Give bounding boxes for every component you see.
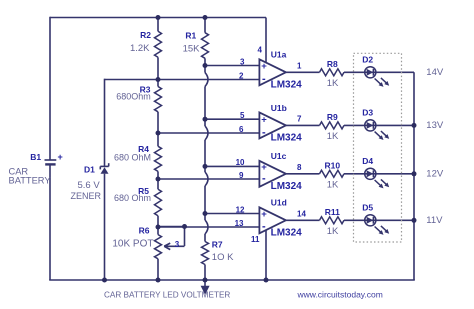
svg-text:6: 6 (239, 125, 244, 134)
wire U1a + input (pin 3) (205, 65, 259, 67)
svg-text:14V: 14V (426, 67, 444, 78)
svg-text:D3: D3 (362, 108, 373, 118)
svg-text:15K: 15K (183, 44, 201, 55)
node reference tap U1b (156, 131, 161, 136)
LED D5 (365, 215, 390, 235)
op-amp U1c (259, 161, 286, 187)
wire R11 to D5 (344, 219, 365, 221)
wire U1d pin 11 ground (265, 230, 267, 280)
wire R7 bottom lead (204, 265, 206, 281)
svg-text:D2: D2 (362, 55, 373, 65)
svg-text:5: 5 (240, 111, 245, 120)
svg-text:2: 2 (239, 71, 244, 80)
wire U1d output (286, 219, 320, 221)
svg-text:+: + (58, 152, 63, 162)
LED D3 (365, 120, 390, 140)
LED D4 (365, 168, 390, 188)
svg-text:1K: 1K (327, 131, 339, 142)
wire R1 top lead (204, 18, 206, 33)
wire R5 bottom lead (157, 216, 159, 227)
node sense tap U1b (203, 117, 208, 122)
svg-text:1K: 1K (327, 179, 339, 190)
svg-text:12V: 12V (426, 169, 444, 180)
svg-text:LM324: LM324 (271, 228, 303, 239)
node reference tap U1d (156, 225, 161, 230)
wire R9 to D3 (344, 124, 365, 126)
svg-text:1K: 1K (327, 226, 339, 237)
wire R4 bottom lead (157, 171, 159, 179)
node wiper junction (182, 224, 187, 229)
svg-text:LM324: LM324 (271, 181, 303, 192)
svg-text:LM324: LM324 (271, 80, 303, 91)
wire U1a pin 4 supply (265, 18, 267, 63)
svg-text:1K: 1K (327, 78, 339, 89)
wire right LED common rail (413, 72, 415, 280)
wire U1b output (286, 124, 320, 126)
svg-text:+: + (261, 209, 267, 220)
svg-text:8: 8 (297, 163, 302, 172)
ground (201, 280, 210, 295)
svg-text:11: 11 (251, 235, 260, 244)
svg-text:7: 7 (297, 115, 302, 124)
node sense tap U1d (203, 211, 208, 216)
resistor R9 (320, 122, 345, 129)
wire U1b - input (pin 6) (158, 132, 259, 134)
op-amp U1b (259, 112, 286, 138)
svg-text:LM324: LM324 (271, 133, 303, 144)
svg-text:1O K: 1O K (212, 252, 234, 263)
label CAR BATTERY (9, 167, 51, 186)
svg-text:U1d: U1d (271, 198, 287, 208)
wire left battery rail (lower) (49, 164, 51, 280)
wire D2 to rail (376, 71, 414, 73)
svg-text:10K POT: 10K POT (112, 239, 153, 250)
wire U1d + input (pin 12) (205, 213, 259, 215)
node reference tap U1a (156, 77, 161, 82)
svg-text:3: 3 (240, 57, 245, 66)
wire U1a - input (pin 2) (158, 79, 259, 81)
node reference tap U1c (156, 177, 161, 182)
wire sense node column with crossover hops (205, 66, 208, 242)
svg-text:R7: R7 (212, 240, 223, 250)
LED D2 (365, 67, 390, 87)
svg-text:12: 12 (236, 205, 245, 214)
svg-text:11V: 11V (426, 215, 443, 226)
svg-text:R1: R1 (185, 31, 196, 41)
resistor R11 (320, 217, 345, 224)
svg-text:680Ohm: 680Ohm (116, 91, 151, 101)
svg-text:ZENER: ZENER (71, 191, 102, 201)
wire zener column upper (104, 79, 106, 167)
svg-text:BATTERY: BATTERY (9, 176, 51, 186)
resistor R1 (202, 33, 209, 59)
wire R8 to D2 (344, 71, 365, 73)
svg-text:R2: R2 (140, 30, 151, 40)
svg-text:+: + (261, 115, 267, 126)
wire R5 top lead (157, 179, 159, 189)
svg-text:D5: D5 (362, 203, 373, 213)
wire U1c - input (pin 9) (158, 178, 259, 180)
svg-text:U1a: U1a (271, 50, 287, 60)
wire U1d - input (pin 13) (158, 226, 259, 228)
wire R4 top lead (157, 133, 159, 146)
wire R3 top lead (157, 80, 159, 87)
svg-text:3: 3 (175, 240, 180, 249)
node bottom / pin 11 (264, 278, 269, 283)
wire R10 to D4 (344, 173, 365, 175)
svg-text:R8: R8 (327, 59, 338, 69)
wire D3 to rail (376, 124, 414, 126)
wire zener top branch (105, 79, 159, 81)
resistor R3 (155, 87, 162, 112)
wire bottom ground rail (49, 279, 415, 281)
svg-text:R9: R9 (327, 112, 338, 122)
svg-text:R11: R11 (325, 207, 340, 217)
wire U1c output (286, 173, 320, 175)
node bottom / zener (102, 278, 107, 283)
wire left battery rail (upper) (49, 17, 51, 160)
node bottom / R7 (203, 278, 208, 283)
node sense tap U1a (203, 63, 208, 68)
wire D4 to rail (376, 173, 414, 175)
resistor R4 (155, 146, 162, 171)
wire U1c + input (pin 10) (205, 165, 259, 167)
svg-text:13: 13 (235, 219, 244, 228)
svg-text:1: 1 (297, 62, 302, 71)
svg-text:+: + (261, 162, 267, 173)
zener diode D1 (100, 163, 108, 174)
wire top supply rail (50, 17, 266, 19)
node sense tap U1c (203, 164, 208, 169)
node top rail / R2 (156, 15, 161, 20)
wire R3 bottom lead (157, 112, 159, 133)
label 5.6 V ZENER (71, 180, 102, 201)
wire R6 top lead (157, 227, 159, 235)
svg-text:5.6 V: 5.6 V (78, 180, 101, 191)
svg-text:-: - (262, 127, 266, 139)
resistor R10 (320, 170, 345, 177)
resistor R8 (320, 69, 345, 76)
svg-text:-: - (262, 173, 266, 185)
svg-text:U1b: U1b (271, 103, 287, 113)
svg-text:680 Ohm: 680 Ohm (114, 193, 151, 203)
wire zener column lower (104, 174, 106, 280)
wire R6 bottom lead (157, 259, 159, 280)
op-amp U1a (259, 59, 286, 85)
resistor R7 (202, 242, 209, 265)
svg-text:R10: R10 (325, 160, 341, 170)
node rail 13V (412, 123, 417, 128)
op-amp U1d (259, 207, 286, 233)
wire R1 bottom lead (204, 58, 206, 65)
wire U1a output (286, 71, 320, 73)
LED group dotted box (354, 53, 402, 242)
svg-text:680 OhM: 680 OhM (114, 152, 151, 162)
node bottom / R6 (156, 278, 161, 283)
resistor R2 (155, 31, 162, 57)
node top rail / R1 (203, 15, 208, 20)
svg-text:-: - (262, 73, 266, 85)
svg-text:4: 4 (258, 45, 263, 54)
svg-text:B1: B1 (30, 152, 41, 162)
svg-text:R6: R6 (139, 226, 150, 236)
battery B1 (45, 160, 57, 164)
svg-text:D4: D4 (362, 156, 373, 166)
svg-text:www.circuitstoday.com: www.circuitstoday.com (297, 290, 383, 300)
svg-text:D1: D1 (84, 165, 95, 175)
svg-text:U1c: U1c (271, 151, 287, 161)
node rail 12V (412, 171, 417, 176)
potentiometer R6 (155, 235, 162, 259)
svg-text:1.2K: 1.2K (130, 43, 150, 54)
wire D5 to rail (376, 219, 414, 221)
svg-text:10: 10 (236, 158, 245, 167)
wire R2 top lead (157, 18, 159, 32)
svg-text:14: 14 (297, 210, 306, 219)
wire R2 bottom lead (157, 57, 159, 79)
resistor R5 (155, 189, 162, 216)
wire R6 wiper (pin 3) (158, 227, 185, 250)
svg-text:13V: 13V (426, 120, 444, 131)
wire U1b + input (pin 5) (205, 118, 259, 120)
svg-text:CAR BATTERY LED VOLTMETER: CAR BATTERY LED VOLTMETER (104, 290, 230, 299)
node rail 11V (412, 218, 417, 223)
svg-text:9: 9 (239, 171, 244, 180)
